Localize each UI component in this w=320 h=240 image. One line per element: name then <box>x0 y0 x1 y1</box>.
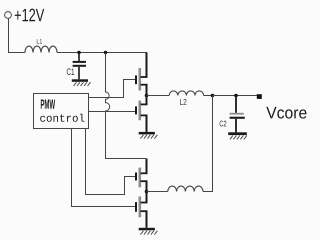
transistor Q2 <box>136 101 148 121</box>
transistor Q3 <box>136 168 148 188</box>
wire switch node to Q2 drain <box>146 96 148 105</box>
wire 12V rail <box>57 52 147 54</box>
label L1 <box>37 39 42 43</box>
ground Q4 <box>139 228 158 235</box>
label C2 <box>220 121 227 127</box>
wire output bus <box>213 95 258 97</box>
wire L3 up to output node <box>203 96 213 192</box>
capacitor C2 <box>230 96 245 133</box>
wire switch node to Q4 drain <box>146 192 148 203</box>
wire switch phase2 to L3 <box>147 191 168 193</box>
terminal Vcore <box>257 94 262 99</box>
wire phase2 feed with crossover humps <box>106 53 147 159</box>
transistor Q1 <box>136 68 148 91</box>
node phase2 feed tap <box>104 51 107 54</box>
wire L2 to output node <box>204 95 213 97</box>
label C1 <box>67 68 74 75</box>
inductor L3 <box>168 186 203 191</box>
wire gate Q1 from PMW <box>89 80 136 98</box>
wire gate Q4 from PMW <box>72 129 136 207</box>
node C1 tap <box>77 51 80 54</box>
ground Q2 <box>139 132 158 139</box>
label L2 <box>180 99 186 105</box>
inductor L1 <box>25 46 57 52</box>
transistor Q4 <box>136 196 148 217</box>
capacitor C1 <box>73 53 86 80</box>
wire Q2 source to ground <box>146 115 148 131</box>
wire +12V terminal to L1 <box>9 18 26 52</box>
label +12V <box>15 9 45 22</box>
wire Q3 source to switch node phase2 <box>146 181 148 191</box>
inductor L2 <box>169 91 203 96</box>
wire gate Q2 from PMW <box>89 111 136 113</box>
wire gate Q3 from PMW <box>86 129 136 195</box>
wire Q4 source to ground <box>146 211 148 228</box>
wire switch phase1 to L2 <box>147 95 170 97</box>
label Vcore <box>266 107 306 119</box>
PWM controller U1 (PMW control box) <box>34 94 89 129</box>
wire Q1 source to switch node <box>146 85 148 96</box>
node switch phase2 <box>145 190 149 194</box>
ground C1 <box>72 79 91 86</box>
wire Q1 drain from rail <box>146 53 148 78</box>
node switch phase1 <box>145 94 149 98</box>
ground C2 <box>228 132 247 139</box>
terminal +12V <box>5 12 12 19</box>
node phase2 join <box>211 94 215 98</box>
node C2 tap <box>234 94 238 98</box>
wire Q3 drain from feed <box>146 159 148 174</box>
